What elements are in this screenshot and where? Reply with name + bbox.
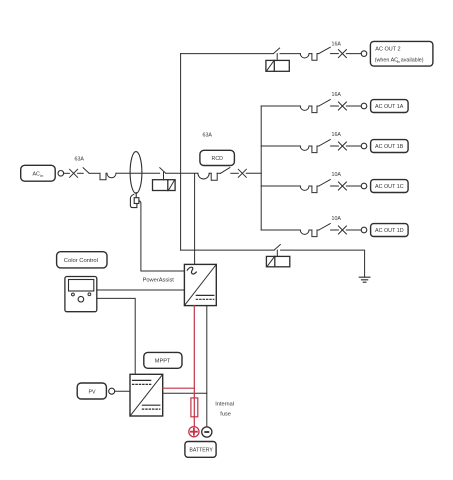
inverter U1 DC dashed line xyxy=(196,298,214,300)
wire to terminal (out2) xyxy=(346,53,361,55)
Color Control label box xyxy=(57,252,107,268)
svg-text:RCD: RCD xyxy=(212,156,224,162)
battery positive wire (inverter) xyxy=(193,306,195,427)
AC-in source box xyxy=(21,165,56,181)
wire to terminal (1B) xyxy=(346,145,361,147)
breaker arc (1A) xyxy=(300,106,309,110)
switch S3 (after RCD) xyxy=(221,168,230,174)
wire (out2) xyxy=(317,53,319,55)
wire switch to fuse X xyxy=(231,172,238,174)
MPPT negative wire xyxy=(163,392,207,394)
wire (1C) xyxy=(317,185,319,187)
svg-text:16A: 16A xyxy=(332,41,342,47)
svg-text:MPPT: MPPT xyxy=(155,359,171,365)
terminal circle (1C) xyxy=(361,183,367,189)
breaker arc (1B) xyxy=(300,146,309,150)
breaker notch (out2) xyxy=(312,54,317,61)
wire relay to breaker (out2) xyxy=(280,53,300,55)
ground relay K3 actuator link xyxy=(276,250,278,256)
ground relay K3 divider xyxy=(274,256,276,266)
svg-text:fuse: fuse xyxy=(220,412,231,418)
AC OUT 1C label box xyxy=(371,180,409,193)
svg-text:PowerAssist: PowerAssist xyxy=(143,278,175,284)
toroid clamp loop xyxy=(130,194,137,207)
svg-text:AC OUT 1B: AC OUT 1B xyxy=(375,144,404,150)
svg-text:available): available) xyxy=(401,58,424,64)
wire X to output bus xyxy=(246,172,261,174)
fuse X (out2) xyxy=(338,50,346,58)
fuse X (1C) xyxy=(338,182,346,190)
wire (1B) xyxy=(331,145,339,147)
MPPT U2 DC-in solid line xyxy=(133,379,151,381)
battery plus terminal xyxy=(189,427,199,437)
switch (out2) xyxy=(319,47,331,53)
CCGX button right xyxy=(88,293,91,296)
svg-text:16A: 16A xyxy=(332,132,342,138)
svg-text:63A: 63A xyxy=(203,132,213,138)
RCD label box xyxy=(200,150,235,165)
CCGX wheel button xyxy=(78,296,84,302)
wire to terminal (1A) xyxy=(346,105,361,107)
wire (1B) xyxy=(317,145,319,147)
svg-text:PV: PV xyxy=(89,389,97,395)
relay K1 actuator link xyxy=(163,172,165,179)
breaker notch (1D) xyxy=(312,230,317,237)
inverter U1 DC solid line xyxy=(196,294,214,296)
breaker notch (1A) xyxy=(312,106,317,113)
current-sense toroid xyxy=(130,152,142,194)
VE.Direct cable display to MPPT xyxy=(97,298,135,374)
svg-text:in: in xyxy=(397,60,400,64)
switch (1C) xyxy=(319,180,331,186)
svg-text:AC OUT 1C: AC OUT 1C xyxy=(375,184,404,190)
MPPT positive wire xyxy=(163,387,195,389)
inverter U1 AC sine symbol xyxy=(187,266,197,275)
wire switch to breaker xyxy=(89,172,100,174)
switch S1 (AC-in) xyxy=(83,168,89,174)
inverter U1 diagonal xyxy=(184,264,216,305)
svg-text:in: in xyxy=(40,173,43,178)
toroid lead stub xyxy=(135,193,137,198)
CCGX display body xyxy=(65,277,97,312)
MPPT U2 DC-in dashed line xyxy=(133,383,151,385)
PV label box xyxy=(77,383,106,399)
ground relay K3 switch xyxy=(274,245,280,251)
MPPT U2 diagonal xyxy=(130,374,163,416)
wire (1A) xyxy=(331,105,339,107)
switch (1B) xyxy=(319,140,331,146)
ground relay K3 slash xyxy=(268,257,274,266)
wire (1B) xyxy=(309,145,312,147)
drop wire to inverter AC input xyxy=(194,173,196,264)
BATTERY label box xyxy=(185,442,216,458)
terminal circle (1B) xyxy=(361,143,367,149)
svg-text:10A: 10A xyxy=(332,216,342,222)
MPPT label box xyxy=(144,352,182,368)
switch (1D) xyxy=(319,224,331,230)
svg-text:10A: 10A xyxy=(332,172,342,178)
wire relay to earth xyxy=(281,250,365,277)
relay K2 divider xyxy=(273,60,275,71)
wire (out2) xyxy=(309,53,312,55)
PV terminal circle xyxy=(109,388,115,394)
RCD breaker arc xyxy=(198,173,209,179)
breaker arc (out2) xyxy=(300,54,309,58)
AC-in terminal circle xyxy=(58,171,64,177)
AC OUT 1D branch wire xyxy=(261,229,300,231)
svg-text:16A: 16A xyxy=(332,92,342,98)
wire (1A) xyxy=(309,105,312,107)
wire (1A) xyxy=(317,105,319,107)
switch (1A) xyxy=(319,100,331,106)
relay K2 actuator link xyxy=(276,54,278,61)
AC OUT 1B label box xyxy=(371,140,409,153)
wire to terminal (1D) xyxy=(346,229,361,231)
terminal circle (1A) xyxy=(361,103,367,109)
battery minus terminal xyxy=(202,427,212,437)
wire X to switch xyxy=(78,172,84,174)
breaker notch (1B) xyxy=(312,146,317,153)
breaker CB1 thermal arc xyxy=(107,173,116,178)
relay K2 switch xyxy=(273,48,279,54)
MPPT charger U2 box xyxy=(130,374,163,416)
AC output bus xyxy=(260,106,262,230)
MPPT U2 DC-out dashed line xyxy=(142,408,159,410)
sense wire toroid to inverter xyxy=(139,201,185,271)
relay K1 coil box xyxy=(153,180,176,191)
RCD breaker square notch xyxy=(211,173,217,180)
breaker arc (1C) xyxy=(300,186,309,190)
svg-text:Internal: Internal xyxy=(215,401,234,407)
fuse X (1B) xyxy=(338,142,346,150)
fuse X on AC-in line xyxy=(70,169,78,177)
MPPT U2 DC-out solid line xyxy=(142,404,159,406)
wire (1D) xyxy=(317,229,319,231)
svg-text:AC OUT 1A: AC OUT 1A xyxy=(375,104,404,110)
wire (out2) xyxy=(331,53,339,55)
breaker arc (1D) xyxy=(300,230,309,234)
svg-text:AC: AC xyxy=(33,171,41,177)
relay K1 slash xyxy=(169,181,174,190)
AC OUT 1A label box xyxy=(371,100,409,113)
wire (1C) xyxy=(331,185,339,187)
wire breaker through toroid to relay switch xyxy=(116,172,160,174)
wire to terminal (1C) xyxy=(346,185,361,187)
toroid connector block xyxy=(134,198,139,204)
AC OUT 1A branch wire xyxy=(261,105,300,107)
wire arc to notch xyxy=(209,172,211,174)
AC OUT 2 branch wire xyxy=(181,53,274,55)
wire (1D) xyxy=(309,229,312,231)
inverter/charger U1 box xyxy=(184,264,216,305)
svg-text:AC OUT 2: AC OUT 2 xyxy=(375,46,400,52)
wire terminal to fuse X xyxy=(64,172,70,174)
svg-text:(when AC: (when AC xyxy=(375,58,398,64)
CCGX screen xyxy=(69,280,94,292)
transfer switch S2 (main line) xyxy=(160,168,166,173)
fuse X main line xyxy=(238,169,246,177)
wire (1C) xyxy=(309,185,312,187)
terminal circle (out2) xyxy=(361,51,367,57)
ground relay K3 coil box xyxy=(266,256,289,266)
svg-text:BATTERY: BATTERY xyxy=(189,448,213,454)
wire relay to RCD breaker xyxy=(166,172,198,174)
AC OUT 1B branch wire xyxy=(261,145,300,147)
wire notch to switch xyxy=(217,172,220,174)
relay K2 coil box xyxy=(266,60,289,71)
breaker notch (1C) xyxy=(312,186,317,193)
svg-text:Color Control: Color Control xyxy=(64,258,98,264)
PV wire to MPPT xyxy=(115,390,130,392)
internal fuse F2 (red) xyxy=(191,398,198,417)
relay K1 divider xyxy=(167,180,169,191)
relay K2 slash xyxy=(267,61,273,70)
fuse X (1D) xyxy=(338,226,346,234)
riser to AC OUT 2 and ground relay xyxy=(180,54,182,251)
svg-text:63A: 63A xyxy=(75,157,85,163)
fuse X (1A) xyxy=(338,102,346,110)
AC OUT 1C branch wire xyxy=(261,185,300,187)
battery negative wire (inverter) xyxy=(206,306,208,427)
VE.Bus cable display to inverter xyxy=(97,289,185,291)
CCGX button left xyxy=(72,293,75,296)
ground relay branch wire xyxy=(181,249,275,251)
ground symbol xyxy=(359,277,370,282)
AC OUT 1D label box xyxy=(371,224,409,237)
wire (1D) xyxy=(331,229,339,231)
terminal circle (1D) xyxy=(361,227,367,233)
breaker CB1 square notch xyxy=(100,173,106,180)
svg-text:AC OUT 1D: AC OUT 1D xyxy=(375,228,404,234)
AC OUT 2 label box xyxy=(370,41,433,66)
